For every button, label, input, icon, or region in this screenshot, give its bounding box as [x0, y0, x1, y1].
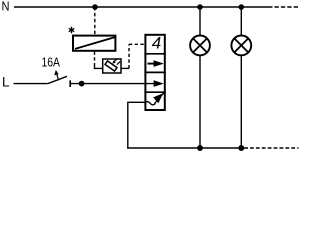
photoresistor box — [103, 59, 121, 73]
junction dot N to sensor — [92, 4, 98, 10]
wire lamp 2 lower — [240, 55, 242, 148]
wire photoresistor right lead — [121, 67, 129, 69]
wire dashed sensor to photoresistor — [94, 52, 96, 65]
wire lamp 2 upper — [240, 7, 242, 36]
arrow symbol input 2 — [148, 60, 164, 67]
svg-text:N: N — [2, 0, 10, 13]
relay contact in box 4 — [144, 93, 163, 105]
asterisk marker — [69, 27, 74, 32]
photoresistor symbol — [105, 58, 120, 71]
svg-text:4: 4 — [152, 34, 161, 53]
device U1 divider 3 — [144, 91, 165, 93]
sensor element with diagonal (light sensor body) — [73, 36, 115, 51]
wire bottom rail dashed continuation — [250, 147, 299, 149]
switch S1 fixed contact bar — [69, 80, 71, 87]
wire from contact box leftwards — [128, 102, 146, 148]
arrow from 16A to switch — [54, 70, 58, 81]
svg-text:L: L — [2, 74, 10, 89]
svg-text:16A: 16A — [42, 55, 61, 70]
wire L feed — [14, 83, 48, 85]
wire dashed up from photoresistor — [128, 44, 130, 68]
junction dot L line — [79, 81, 85, 87]
wire lamp 1 lower — [199, 55, 201, 148]
switch S1 blade — [48, 76, 67, 83]
wire N rail solid — [14, 6, 273, 8]
arrow symbol input 3 — [154, 80, 164, 87]
lamp E1 — [190, 36, 210, 56]
wire dashed drop from N to sensor — [94, 7, 96, 35]
wire N rail dashed continuation — [275, 6, 300, 8]
junction dot bottom lamp 2 — [238, 145, 244, 151]
wire dashed into input box — [129, 43, 145, 45]
device U1 divider 2 — [144, 71, 165, 73]
junction dot bottom lamp 1 — [197, 145, 203, 151]
device U1 divider 1 — [144, 53, 165, 55]
wire lamp 1 upper — [199, 7, 201, 36]
device U1 terminal stack outline — [145, 35, 164, 110]
wire photoresistor left lead — [95, 64, 103, 68]
lamp E2 — [231, 36, 251, 56]
junction dot N to lamp 2 — [239, 4, 245, 10]
wire switch to device — [71, 83, 157, 85]
junction dot N to lamp 1 — [197, 4, 203, 10]
wire bottom rail solid — [127, 147, 248, 149]
